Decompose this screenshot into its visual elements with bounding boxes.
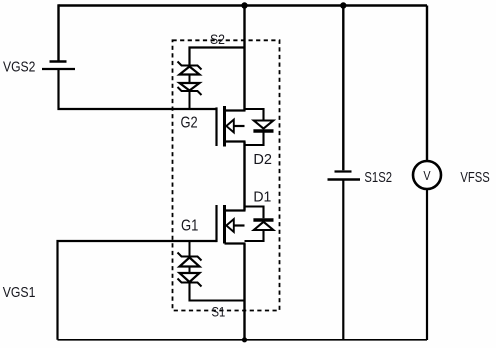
MOSFET Q1 body stub: [234, 224, 245, 226]
wire: VGS2 negative lead to G2: [59, 69, 217, 109]
MOSFET Q2 drain stub (top): [225, 109, 246, 111]
wire: voltmeter bottom lead: [426, 189, 428, 340]
MOSFET Q1 drain stub (top): [225, 209, 246, 211]
zener ZA2 (upper clamp, cathode down): [178, 83, 202, 95]
wire: mid vertical (Q2 source to Q1 drain): [243, 142, 245, 211]
wire: lower zener top lead: [189, 241, 191, 257]
wire: zener mid link (upper): [189, 75, 191, 84]
zener ZB1 (lower clamp, cathode up): [178, 253, 202, 267]
zener ZA1 (upper clamp, cathode up): [178, 62, 202, 75]
wire: top bus: [59, 4, 428, 6]
MOSFET Q1 gate bar: [215, 205, 217, 242]
svg-text:S1: S1: [212, 304, 226, 320]
MOSFET Q1 body arrow: [226, 219, 234, 232]
junction dot (bottom bus / S1): [242, 337, 247, 342]
svg-text:D1: D1: [253, 188, 271, 205]
wire: G1 lead from VGS1: [58, 241, 217, 340]
svg-text:VFSS: VFSS: [460, 169, 489, 186]
MOSFET Q2 gate bar: [215, 107, 217, 146]
battery VGS2: [42, 62, 75, 70]
wire: S2 link into module: [190, 48, 245, 66]
dashed box (switch module outline): [173, 40, 280, 310]
MOSFET Q2 source stub (bottom): [225, 140, 246, 142]
wire: VGS2 positive lead: [57, 4, 59, 61]
wire: zener lower lead to G2 wire: [189, 91, 191, 110]
MOSFET Q1 channel bar: [223, 205, 226, 244]
svg-text:VGS1: VGS1: [3, 284, 36, 301]
svg-text:G1: G1: [181, 217, 198, 234]
wire: lower zener return to S1 bus: [190, 283, 245, 301]
svg-text:V: V: [423, 169, 431, 183]
voltmeter V: [413, 161, 441, 189]
MOSFET Q1 source stub (bottom): [225, 242, 246, 244]
zener ZB2 (lower clamp, cathode down): [178, 273, 202, 287]
svg-text:G2: G2: [181, 115, 198, 132]
wire: zener mid link (lower): [189, 267, 191, 274]
junction dot (top bus / S2): [241, 2, 247, 8]
svg-text:S2: S2: [210, 32, 225, 47]
svg-text:VGS2: VGS2: [3, 59, 35, 76]
svg-text:S1S2: S1S2: [364, 169, 392, 186]
MOSFET Q2 body stub: [234, 125, 245, 127]
junction dot (top bus / S1S2): [340, 2, 346, 8]
battery S1S2: [328, 172, 361, 180]
body diode D1 (cathode up, anode down): [245, 207, 274, 242]
wire: voltmeter top lead: [426, 6, 428, 161]
wire: S1 bus lower vertical: [243, 244, 245, 341]
body diode D2 (anode up, cathode down): [245, 109, 274, 145]
svg-text:D2: D2: [253, 151, 272, 168]
wire: S1S2 source top lead: [342, 6, 344, 171]
wire: S1S2 bottom lead: [342, 180, 344, 340]
wire: bottom bus: [58, 339, 428, 341]
MOSFET Q2 channel bar: [223, 106, 226, 147]
MOSFET Q2 body arrow: [226, 120, 234, 133]
wire: drain bus upper vertical: [243, 6, 245, 111]
